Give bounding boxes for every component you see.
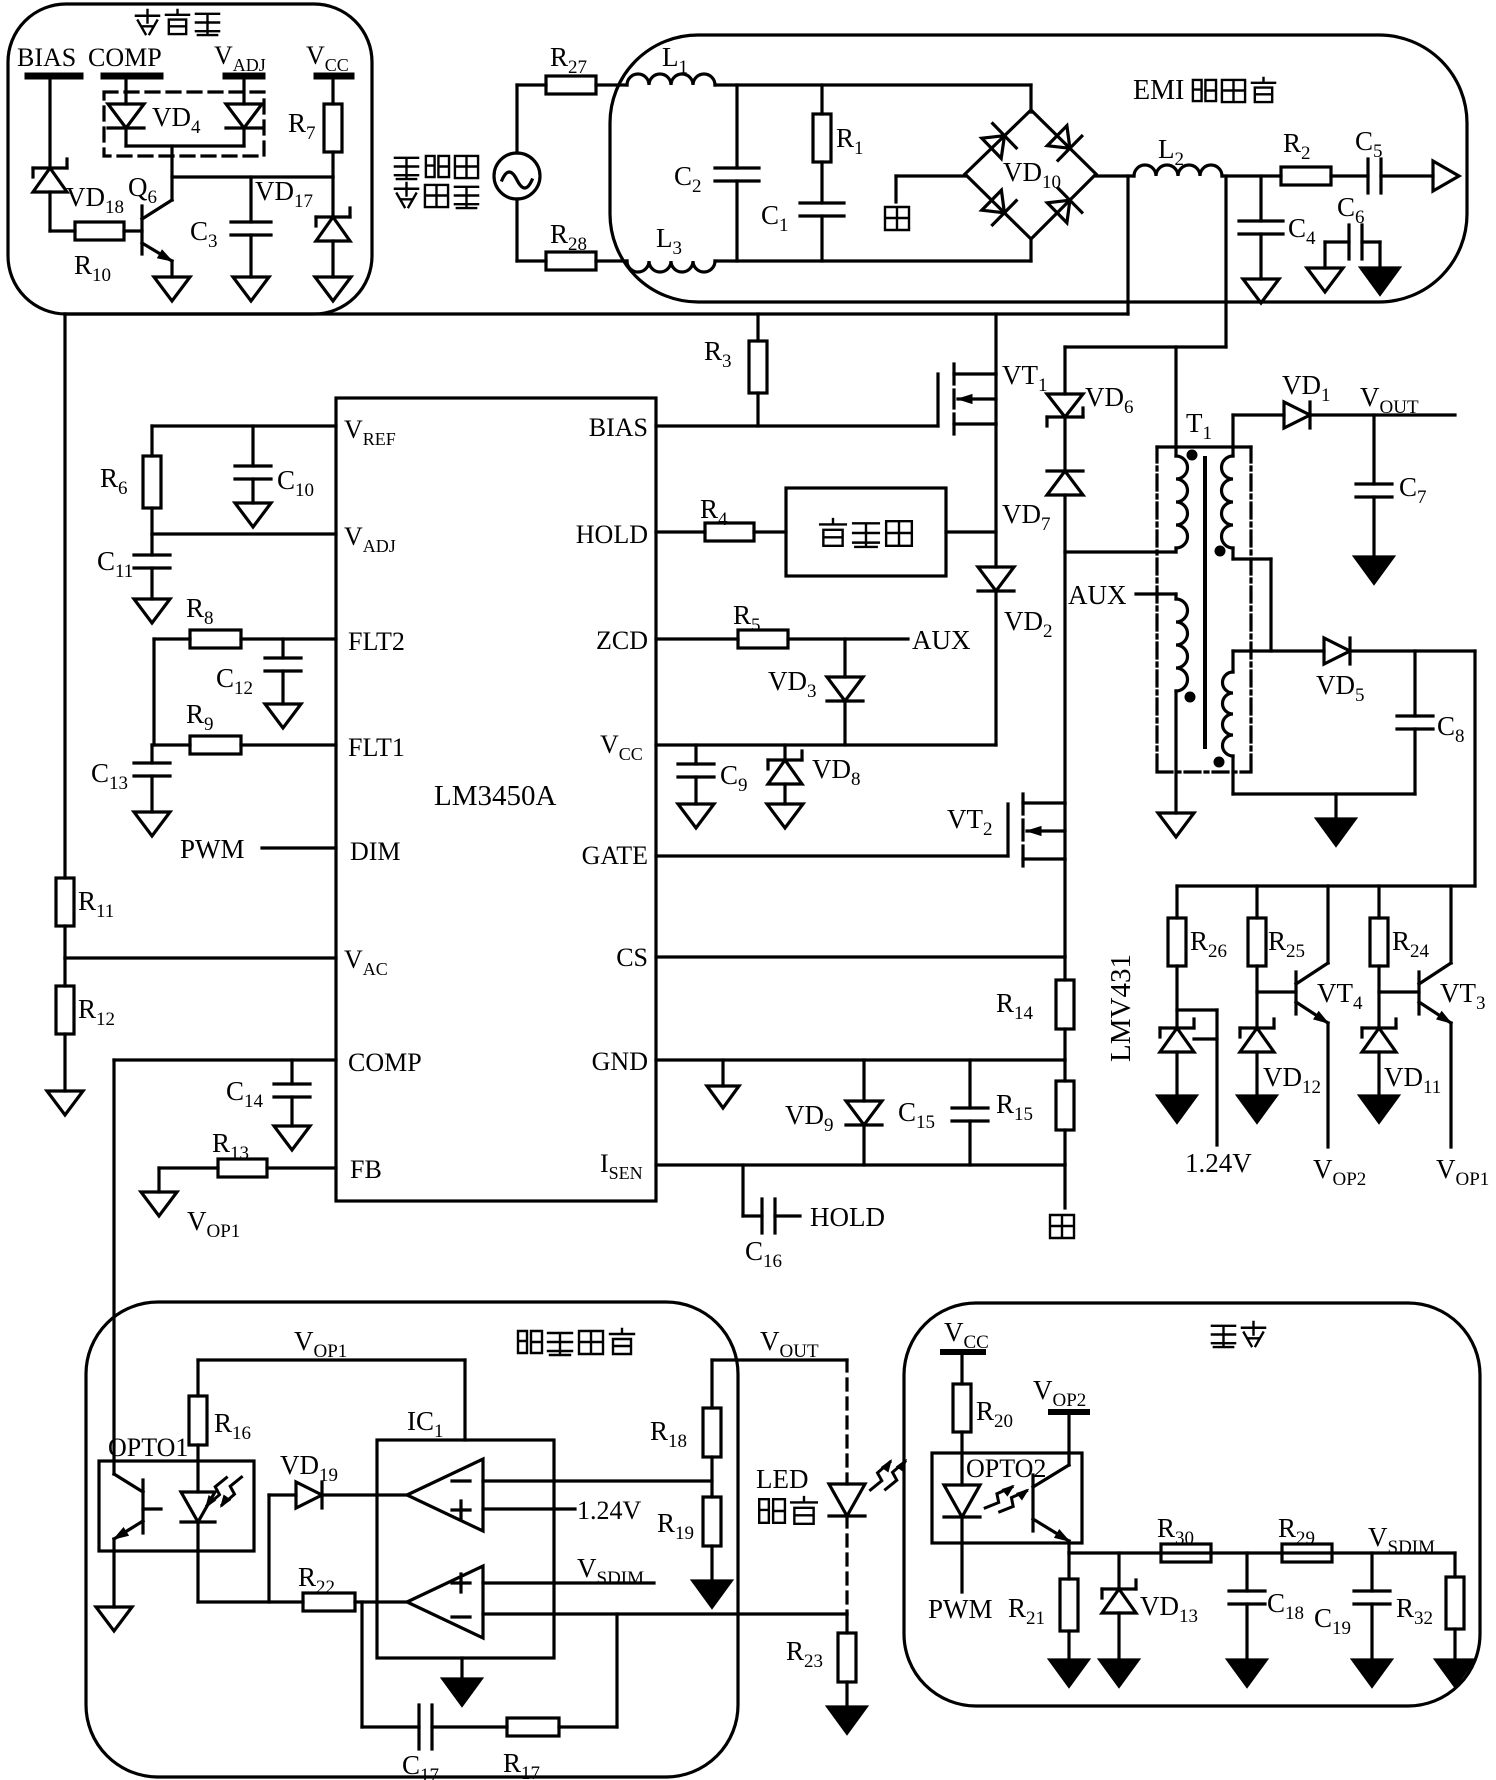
wire secondary2 to VD5	[1233, 649, 1324, 652]
bridge rectifier VD10 diamond	[965, 110, 1096, 239]
svg-text:GND: GND	[592, 1047, 648, 1076]
label 1.24V at op-amp1	[577, 1496, 642, 1525]
svg-text:R26: R26	[1190, 926, 1227, 962]
svg-text:R17: R17	[503, 1748, 540, 1780]
label T1	[1186, 408, 1212, 444]
resistor R20	[953, 1384, 1013, 1485]
wire source to R27/R28	[517, 85, 546, 261]
wire CS line	[656, 859, 1065, 957]
resistor R11	[56, 878, 114, 926]
svg-text:VD8: VD8	[812, 754, 861, 790]
svg-text:R7: R7	[288, 108, 316, 144]
wire R28 to L3	[596, 259, 627, 262]
svg-text:VADJ: VADJ	[214, 41, 266, 75]
capacitor C15	[898, 1060, 988, 1165]
inductor L3	[627, 223, 715, 272]
label AUX at transformer	[1068, 580, 1127, 610]
svg-text:IC1: IC1	[407, 1406, 444, 1442]
wire GATE line	[656, 854, 1008, 857]
capacitor C2	[674, 85, 759, 261]
svg-text:VD6: VD6	[1085, 382, 1134, 418]
terminal VADJ	[214, 41, 266, 76]
phase dot primary	[1187, 450, 1198, 461]
svg-text:R21: R21	[1008, 1593, 1045, 1629]
svg-text:VOP1: VOP1	[1436, 1154, 1489, 1190]
optocoupler OPTO2 box	[932, 1453, 1082, 1543]
light arrows OPTO2	[985, 1486, 1028, 1512]
label VOUT at load	[760, 1326, 819, 1362]
wire aux winding to ground	[1174, 691, 1177, 813]
pin FLT2	[348, 627, 405, 656]
wire rectified bus horizontal	[65, 312, 1128, 315]
optocoupler OPTO1 box	[99, 1433, 254, 1551]
wire VCC line	[656, 743, 996, 746]
svg-text:R9: R9	[186, 699, 214, 735]
diode VD9	[785, 1060, 882, 1165]
terminal VOP2 in dimming	[1033, 1375, 1087, 1412]
wire secondary2 bottom line	[1233, 792, 1415, 795]
wire FLT2 line	[154, 637, 336, 640]
svg-text:VOP2: VOP2	[1313, 1154, 1366, 1190]
op-amp U1b	[407, 1566, 483, 1638]
svg-text:VD1: VD1	[1282, 370, 1331, 406]
capacitor C16	[743, 1165, 800, 1272]
wire VADJ to VD4	[242, 80, 245, 104]
svg-text:OPTO1: OPTO1	[108, 1433, 188, 1462]
wire op-amp1 non-inverting input 1.24V	[483, 1507, 575, 1510]
ground filled below C18	[1228, 1660, 1266, 1686]
wire VD4 cathodes join	[126, 144, 244, 147]
ground below C10	[235, 503, 271, 527]
resistor R3	[704, 314, 767, 426]
bridge diode top-left	[982, 124, 1017, 159]
transistor Q6	[128, 172, 172, 277]
transistor VT4	[1257, 886, 1363, 1147]
label PWM at OPTO2	[928, 1594, 993, 1624]
resistor R16	[189, 1396, 251, 1492]
transformer aux winding	[1176, 599, 1188, 691]
terminal COMP	[88, 43, 162, 76]
wire VAC line	[65, 926, 336, 958]
wire LMV431 supply line	[1177, 884, 1475, 887]
svg-text:VD3: VD3	[768, 666, 817, 702]
wire thermal box to VT1 source column	[946, 530, 996, 533]
svg-text:VADJ: VADJ	[344, 522, 396, 556]
svg-text:C18: C18	[1267, 1588, 1304, 1624]
svg-text:Q6: Q6	[128, 172, 157, 208]
transformer T1 box	[1157, 447, 1251, 772]
svg-text:C7: C7	[1399, 472, 1427, 508]
label IC1	[407, 1406, 444, 1442]
resistor R1	[813, 85, 864, 203]
ground filled below secondary2 loop	[1317, 794, 1355, 845]
transformer secondary1 winding	[1222, 456, 1234, 548]
capacitor C9	[678, 745, 748, 804]
svg-text:VREF: VREF	[344, 415, 396, 449]
resistor R30	[1157, 1513, 1211, 1562]
transistor VT3	[1379, 886, 1486, 1147]
zener diode VD8	[768, 745, 861, 804]
label earth (di) in EMI filter	[885, 207, 909, 230]
ground filled below R32	[1436, 1660, 1474, 1686]
resistor R2	[1281, 128, 1331, 185]
wire node up to VD19	[269, 1495, 296, 1602]
light arrows OPTO1	[206, 1477, 242, 1507]
svg-text:L3: L3	[656, 223, 682, 259]
capacitor C11	[97, 534, 170, 599]
resistor R8	[186, 593, 241, 648]
label dimming title (tiao guang)	[1212, 1322, 1265, 1347]
svg-text:FB: FB	[350, 1155, 382, 1184]
wire L3 to bridge bottom	[715, 240, 1031, 261]
label LMV431	[1105, 954, 1137, 1062]
resistor R18	[650, 1408, 721, 1457]
ground filled below C7	[1355, 557, 1393, 583]
resistor R26	[1168, 886, 1227, 1028]
svg-text:R11: R11	[78, 886, 114, 922]
AC source	[494, 153, 540, 199]
terminal VCC in dimming	[943, 1317, 989, 1353]
label earth (di) at ISEN rail	[1050, 1215, 1074, 1238]
ground filled below R19	[693, 1546, 731, 1607]
wire ISEN line	[656, 1165, 1065, 1208]
wire VOP1 rail	[198, 1360, 465, 1440]
zener diode VD11	[1362, 1019, 1441, 1098]
svg-text:1.24V: 1.24V	[577, 1496, 642, 1525]
label VSDIM at op-amp2	[577, 1553, 644, 1589]
svg-text:R27: R27	[550, 42, 587, 78]
wire BIAS line	[656, 424, 938, 427]
svg-text:VOP1: VOP1	[294, 1326, 347, 1362]
svg-text:VD2: VD2	[1004, 606, 1053, 642]
pin VREF	[344, 415, 396, 449]
svg-text:L1: L1	[662, 42, 688, 78]
label VSDIM in dimming	[1368, 1522, 1435, 1558]
svg-text:VD17: VD17	[255, 176, 313, 212]
wire primary bottom	[1065, 548, 1176, 552]
ground below VD17	[315, 277, 351, 301]
ground filled below VD11	[1360, 1096, 1398, 1122]
svg-text:C15: C15	[898, 1097, 935, 1133]
op-amp U1a	[407, 1459, 483, 1531]
bridge diode top-right	[1047, 126, 1082, 161]
IC1 box	[377, 1440, 554, 1658]
dimming block border	[904, 1303, 1480, 1706]
svg-text:C12: C12	[216, 663, 253, 699]
svg-text:VT1: VT1	[1002, 360, 1048, 396]
wire VT1 source down	[994, 424, 997, 567]
capacitor C13	[91, 745, 170, 812]
feedback block border	[86, 1302, 738, 1777]
ground arrow below R13	[141, 1192, 177, 1216]
wire rectified bus drop at bridge output	[1126, 176, 1129, 314]
soft-start block border	[8, 4, 372, 314]
svg-text:R15: R15	[996, 1089, 1033, 1125]
resistor R10	[50, 222, 142, 286]
diode VD5	[1316, 638, 1365, 706]
svg-text:R8: R8	[186, 593, 214, 629]
pin CS	[616, 943, 648, 972]
svg-text:VOP1: VOP1	[187, 1206, 240, 1242]
svg-text:VCC: VCC	[944, 1317, 989, 1353]
ground below aux winding	[1158, 813, 1194, 837]
diode VD7	[1002, 417, 1083, 803]
svg-text:COMP: COMP	[348, 1048, 422, 1077]
wire BIAS to VD18	[48, 80, 51, 168]
op-amp controller IC LM3450A box	[336, 398, 656, 1201]
ground filled below R23	[828, 1682, 866, 1733]
svg-text:VOUT: VOUT	[1360, 382, 1419, 418]
svg-text:C13: C13	[91, 758, 128, 794]
resistor R13	[212, 1128, 267, 1177]
wire C17 to R17	[432, 1725, 507, 1728]
label 1.24V	[1185, 1148, 1252, 1178]
ground filled below VD13	[1100, 1660, 1138, 1686]
label VOP1 near FB	[187, 1206, 240, 1242]
phototransistor of OPTO1	[114, 1474, 161, 1607]
capacitor C12	[216, 639, 301, 704]
light arrows LED load	[871, 1460, 907, 1490]
resistor R6	[100, 456, 161, 534]
svg-text:1.24V: 1.24V	[1185, 1148, 1252, 1178]
svg-text:R24: R24	[1392, 926, 1430, 962]
capacitor C4	[1239, 176, 1316, 279]
svg-text:C8: C8	[1437, 711, 1465, 747]
wire LED load dashed top	[845, 1360, 848, 1484]
thermal protection box (re bao hu)	[786, 488, 946, 576]
pin COMP	[348, 1048, 422, 1077]
svg-text:R1: R1	[836, 123, 864, 159]
shunt regulator LMV431 symbol	[1160, 1019, 1194, 1096]
ground below C9	[678, 804, 714, 828]
label feedback control title (fan kui kong zhi)	[518, 1329, 634, 1355]
svg-text:C11: C11	[97, 546, 133, 582]
pin ISEN	[600, 1149, 643, 1183]
ground below Q6	[154, 277, 190, 301]
resistor R12	[56, 958, 115, 1091]
transformer secondary2 winding	[1223, 651, 1234, 794]
svg-text:VD9: VD9	[785, 1100, 834, 1136]
wire C5 to output arrow	[1381, 174, 1433, 177]
svg-text:BIAS: BIAS	[17, 43, 76, 72]
svg-text:AUX: AUX	[912, 625, 971, 655]
inductor L2	[1134, 134, 1222, 176]
terminal BIAS	[17, 43, 80, 76]
ground open below C6 left	[1307, 268, 1343, 292]
svg-text:C17: C17	[402, 1750, 439, 1780]
resistor R21	[1008, 1553, 1078, 1660]
resistor R14	[996, 957, 1074, 1060]
wire PWM to DIM	[262, 846, 336, 849]
wire LED load dashed bottom	[845, 1516, 848, 1614]
LED load diode	[829, 1484, 865, 1516]
svg-text:R18: R18	[650, 1416, 687, 1452]
svg-text:VOUT: VOUT	[760, 1326, 819, 1362]
diode VD2	[978, 567, 1053, 745]
svg-text:R6: R6	[100, 463, 128, 499]
wire op-amp1 inverting input	[483, 1479, 712, 1482]
wire earth stub to bridge left	[896, 176, 966, 202]
label EMI filter title	[1133, 75, 1275, 106]
svg-text:C3: C3	[190, 216, 218, 252]
capacitor C10	[235, 426, 314, 503]
ground filled below C19	[1353, 1660, 1391, 1686]
svg-text:R32: R32	[1396, 1593, 1433, 1629]
wire primary feed line	[1065, 345, 1226, 348]
svg-text:LMV431: LMV431	[1105, 954, 1137, 1062]
svg-text:VD13: VD13	[1140, 1591, 1198, 1627]
wire L2 to R2	[1222, 174, 1281, 177]
resistor R32	[1396, 1553, 1464, 1660]
svg-text:BIAS: BIAS	[589, 413, 648, 442]
resistor R7	[288, 104, 342, 177]
resistor R19	[657, 1497, 721, 1546]
svg-text:R20: R20	[976, 1396, 1013, 1432]
svg-text:R23: R23	[786, 1636, 823, 1672]
wire VCC to R20	[960, 1355, 963, 1384]
svg-text:CS: CS	[616, 943, 648, 972]
svg-text:C6: C6	[1337, 192, 1365, 228]
phase dot secondary2	[1214, 757, 1225, 768]
svg-text:C16: C16	[745, 1236, 782, 1272]
zener diode VD12	[1240, 1019, 1321, 1098]
resistor R27	[546, 42, 596, 94]
label VD4	[152, 102, 201, 138]
wire L1 to bridge top	[715, 85, 1031, 112]
output arrow	[1433, 161, 1459, 191]
wire HOLD line	[656, 530, 705, 533]
wire R17 up to op-amp2 inverting	[559, 1614, 617, 1727]
EMI filter block border	[610, 35, 1467, 302]
svg-text:T1: T1	[1186, 408, 1212, 444]
svg-text:R16: R16	[214, 1408, 251, 1444]
resistor R4	[700, 494, 754, 541]
svg-text:PWM: PWM	[180, 834, 245, 864]
wire VOUT load line	[712, 1360, 847, 1408]
wire bus down to R11	[63, 314, 66, 878]
svg-text:FLT2: FLT2	[348, 627, 405, 656]
svg-text:VD4: VD4	[152, 102, 201, 138]
diode VD1	[1233, 370, 1331, 428]
svg-text:GATE: GATE	[582, 841, 648, 870]
wire VADJ line	[152, 532, 336, 535]
svg-text:DIM: DIM	[350, 837, 401, 866]
pin GATE	[582, 841, 648, 870]
bridge diode bottom-left	[982, 190, 1017, 225]
ground below C4	[1243, 279, 1279, 303]
wire R5 to AUX	[788, 637, 908, 640]
wire right rail down to LMV431 block	[1473, 651, 1476, 886]
capacitor C14	[226, 1060, 310, 1126]
svg-text:R3: R3	[704, 336, 732, 372]
resistor R5	[733, 600, 788, 648]
wire COMP to VD4	[124, 80, 127, 104]
resistor R17	[503, 1718, 559, 1780]
wire compensation branch down	[362, 1602, 419, 1727]
label VOP1 rail	[294, 1326, 347, 1362]
svg-text:C4: C4	[1288, 213, 1316, 249]
svg-text:VD12: VD12	[1263, 1062, 1321, 1098]
wire ZCD line	[656, 637, 738, 640]
diode VD4 left half	[108, 104, 144, 146]
label VOP2	[1313, 1154, 1366, 1190]
ground filled below LMV431	[1158, 1096, 1196, 1122]
pin BIAS	[589, 413, 648, 442]
wire VCC to R7	[331, 80, 334, 104]
phototransistor of OPTO2	[1033, 1465, 1069, 1553]
svg-text:EMI: EMI	[1133, 75, 1184, 106]
svg-text:HOLD: HOLD	[576, 520, 648, 549]
svg-text:VD19: VD19	[280, 1450, 338, 1486]
ground below C13	[134, 812, 170, 836]
pin VADJ	[344, 522, 396, 556]
wire post-L2 drop to primary feed	[1224, 176, 1227, 347]
svg-text:C10: C10	[277, 465, 314, 501]
inductor L1	[627, 42, 715, 85]
svg-text:VD7: VD7	[1002, 499, 1051, 535]
ground filled below C6 right	[1361, 268, 1399, 294]
transformer primary winding	[1176, 456, 1188, 548]
svg-text:VD18: VD18	[66, 182, 124, 218]
wire R22 to op-amp2	[355, 1600, 407, 1603]
wire soft-start node line	[172, 175, 333, 178]
ground below C12	[265, 704, 301, 728]
wire VD19 to op-amp1	[322, 1493, 407, 1496]
svg-text:R25: R25	[1268, 926, 1305, 962]
pin DIM	[350, 837, 401, 866]
label VOUT	[1360, 382, 1419, 418]
capacitor C7	[1356, 415, 1427, 557]
svg-text:C1: C1	[761, 200, 789, 236]
svg-text:ZCD: ZCD	[596, 626, 648, 655]
svg-text:COMP: COMP	[88, 43, 162, 72]
resistor R22	[298, 1562, 355, 1611]
svg-text:VAC: VAC	[344, 945, 388, 979]
wire R18 to R19	[710, 1457, 713, 1497]
label HOLD at C16	[810, 1202, 885, 1232]
zener diode VD13	[1102, 1553, 1198, 1660]
resistor R25	[1248, 886, 1305, 1028]
svg-text:C2: C2	[674, 161, 702, 197]
zener diode VD18	[33, 159, 124, 231]
wire VOUT line	[1310, 413, 1455, 416]
svg-text:VOP2: VOP2	[1033, 1375, 1086, 1411]
wire FLT1 line	[152, 743, 336, 746]
pin FLT1	[348, 733, 405, 762]
svg-text:C19: C19	[1314, 1603, 1351, 1639]
resistor R28	[546, 219, 596, 270]
wire R2 to C5	[1331, 174, 1368, 177]
wire VREF line	[152, 426, 336, 456]
ground below C14	[274, 1126, 310, 1150]
svg-text:LED: LED	[756, 1464, 808, 1494]
pin HOLD	[576, 520, 648, 549]
svg-text:VCC: VCC	[306, 41, 349, 75]
capacitor C19	[1314, 1553, 1390, 1660]
ground below R12	[47, 1091, 83, 1115]
resistor R24	[1370, 886, 1430, 1028]
pin VCC	[600, 730, 643, 764]
svg-text:C14: C14	[226, 1076, 264, 1112]
svg-text:C5: C5	[1355, 126, 1383, 162]
svg-text:VT2: VT2	[947, 804, 993, 840]
wire 1.24V reference branch	[1177, 1010, 1217, 1145]
wire secondary1 top	[1231, 415, 1234, 456]
capacitor C5	[1355, 126, 1383, 193]
svg-text:R19: R19	[657, 1508, 694, 1544]
label PWM at DIM	[180, 834, 245, 864]
ground below C3	[233, 277, 269, 301]
